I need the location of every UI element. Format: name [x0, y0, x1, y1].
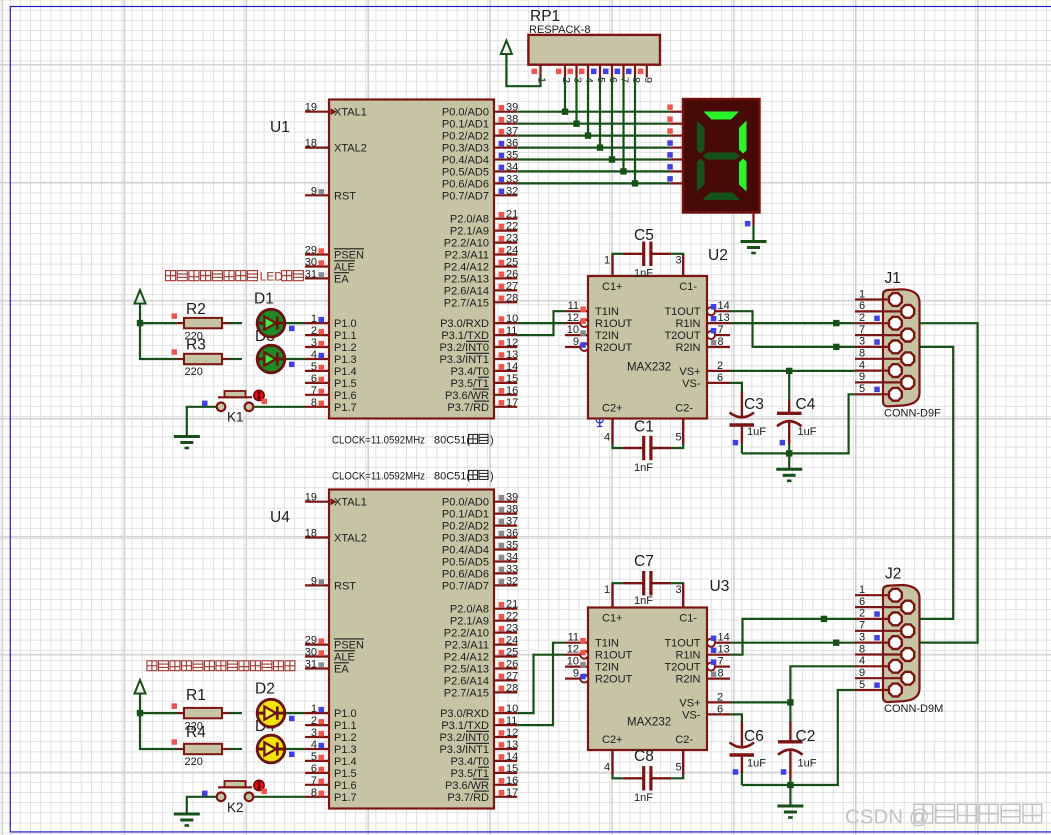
junction U3 VS+ at C2: [787, 699, 793, 705]
svg-text:17: 17: [506, 397, 518, 409]
svg-text:P3.7/RD: P3.7/RD: [447, 402, 489, 414]
svg-text:3: 3: [859, 631, 865, 643]
capacitor C5 plates: [644, 242, 651, 266]
svg-text:38: 38: [506, 504, 518, 516]
svg-text:7: 7: [718, 324, 724, 336]
svg-text:13: 13: [506, 739, 518, 751]
U2 pin numbers: [567, 300, 730, 384]
svg-text:R2: R2: [186, 301, 206, 318]
svg-text:3: 3: [311, 337, 317, 349]
svg-text:2: 2: [717, 691, 723, 703]
junction on R1IN wire: [833, 320, 839, 326]
svg-text:P1.0: P1.0: [334, 318, 357, 330]
svg-text:P0.4/AD4: P0.4/AD4: [442, 545, 489, 557]
svg-text:31: 31: [305, 659, 317, 671]
svg-text:5: 5: [311, 751, 317, 763]
svg-text:RST: RST: [334, 190, 356, 202]
svg-text:P3.4/T0: P3.4/T0: [450, 756, 489, 768]
svg-text:P1.1: P1.1: [334, 720, 357, 732]
microcontroller U4 80C51 body: [329, 490, 494, 809]
svg-text:12: 12: [506, 337, 518, 349]
svg-text:6: 6: [717, 703, 723, 715]
svg-text:1: 1: [311, 703, 317, 715]
7-segment segment G (off): [703, 153, 741, 160]
J1 pin state squares: [874, 316, 880, 393]
svg-text:D2: D2: [255, 681, 275, 698]
wire U1 P3.1/TXD to U2 T1IN: [517, 311, 565, 335]
svg-text:4: 4: [311, 739, 317, 751]
svg-text:CLOCK=11.0592MHz: CLOCK=11.0592MHz: [332, 434, 425, 446]
svg-text:P3.4/T0: P3.4/T0: [450, 366, 489, 378]
U3 right pin stubs and bubbles: [707, 639, 730, 715]
wire LED D2 to U4 P1.0: [286, 712, 305, 714]
svg-text:7: 7: [718, 656, 724, 668]
svg-text:13: 13: [718, 312, 730, 324]
svg-text:R1IN: R1IN: [675, 650, 700, 662]
resistor pack RP1 RESPACK-8 body: [528, 35, 660, 65]
svg-text:3: 3: [859, 336, 865, 348]
svg-text:CONN-D9F: CONN-D9F: [884, 408, 941, 420]
svg-text:80C51(: 80C51(: [434, 470, 470, 482]
svg-text:P0.5/AD5: P0.5/AD5: [442, 557, 489, 569]
svg-text:24: 24: [506, 635, 518, 647]
wire U3 T1OUT to J2 pin 3: [730, 642, 855, 644]
svg-text:R1OUT: R1OUT: [595, 650, 633, 662]
U1 left pin stubs: [305, 112, 329, 407]
svg-text:P3.0/RXD: P3.0/RXD: [440, 318, 489, 330]
svg-text:P1.7: P1.7: [334, 402, 357, 414]
svg-text:ALE: ALE: [334, 262, 355, 274]
svg-text:P1.3: P1.3: [334, 744, 357, 756]
wire U3 R1IN to J2 pin 2: [730, 619, 855, 655]
svg-text:1uF: 1uF: [798, 758, 817, 770]
U4 right pin stubs: [494, 502, 517, 797]
svg-text:25: 25: [506, 257, 518, 269]
svg-text:5: 5: [676, 432, 682, 444]
RP1 pin numbers: [536, 77, 654, 83]
svg-text:6: 6: [859, 300, 865, 312]
svg-text:29: 29: [305, 245, 317, 257]
C5 pin leads to chip: [613, 254, 684, 276]
svg-text:9: 9: [573, 668, 579, 680]
power symbol VCC (top-left LED branch): [135, 290, 146, 304]
svg-text:P3.1/TXD: P3.1/TXD: [441, 720, 489, 732]
svg-text:P0.6/AD6: P0.6/AD6: [442, 178, 489, 190]
capacitor C7 pin numbers: [604, 584, 682, 596]
annotation text (bottom): control description: [147, 661, 295, 671]
wire K1 to U1 P1.7: [254, 406, 306, 408]
svg-text:4: 4: [604, 762, 610, 774]
svg-text:9: 9: [642, 77, 654, 83]
svg-text:30: 30: [305, 647, 317, 659]
svg-text:22: 22: [506, 611, 518, 623]
wire VCC to RP1 pin 1: [506, 54, 540, 87]
7-segment segment D (off): [703, 193, 741, 201]
7-segment segment F (off): [697, 121, 705, 154]
svg-text:C2-: C2-: [675, 734, 693, 746]
svg-text:8: 8: [718, 668, 724, 680]
svg-text:5: 5: [311, 361, 317, 373]
svg-text:2: 2: [311, 715, 317, 727]
svg-text:T2OUT: T2OUT: [664, 662, 700, 674]
svg-text:CSDN @: CSDN @: [845, 806, 930, 829]
wire R2 to LED D1: [230, 322, 242, 324]
svg-text:P2.0/A8: P2.0/A8: [450, 604, 489, 616]
svg-text:P2.6/A14: P2.6/A14: [444, 285, 489, 297]
svg-text:27: 27: [506, 670, 518, 682]
7-segment segment A (on): [704, 112, 740, 120]
svg-text:7: 7: [859, 324, 865, 336]
svg-text:37: 37: [506, 516, 518, 528]
LED D1 body: [256, 309, 285, 337]
wire LED D1 to U1 P1.0: [286, 322, 305, 324]
LED D4 body: [256, 735, 285, 763]
svg-text:18: 18: [305, 138, 317, 150]
junction ground bus at C4: [786, 450, 792, 456]
svg-text:P0.7/AD7: P0.7/AD7: [442, 190, 489, 202]
svg-text:10: 10: [506, 703, 518, 715]
junctions RP1 drops on P0 bus: [562, 109, 638, 187]
wire K1 to ground: [187, 407, 217, 437]
svg-text:14: 14: [506, 361, 518, 373]
svg-text:U1: U1: [270, 119, 290, 136]
svg-text:P1.1: P1.1: [334, 330, 357, 342]
resistor R4 body: [184, 744, 222, 754]
7-segment common pin stub: [752, 213, 754, 226]
svg-text:8: 8: [859, 348, 865, 360]
svg-text:P2.7/A15: P2.7/A15: [444, 687, 489, 699]
svg-text:T1IN: T1IN: [595, 306, 619, 318]
wire U4 P3.0/RXD to U3 R1OUT: [517, 655, 565, 713]
svg-text:2: 2: [717, 360, 723, 372]
7-segment segment C (on): [739, 159, 747, 192]
wire C8 to pins: [613, 774, 684, 778]
ground bus wire (top serial section): [742, 394, 855, 453]
wire U2 T1OUT to J1 pin 3: [730, 311, 855, 347]
wire C7 to pins: [611, 582, 684, 584]
U4 right pin labels: [439, 497, 489, 804]
wire C6 to ground bus: [741, 773, 743, 785]
svg-text:R2IN: R2IN: [675, 342, 700, 354]
svg-text:8: 8: [859, 643, 865, 655]
svg-text:P3.3/INT1: P3.3/INT1: [439, 354, 489, 366]
wire U3 VS+ junction: [730, 701, 790, 703]
7-segment segment B (on): [739, 121, 747, 154]
svg-text:P0.1/AD1: P0.1/AD1: [442, 509, 489, 521]
RP1 pin state squares: [532, 69, 644, 75]
7-segment segment E (off): [697, 159, 705, 192]
svg-text:C1: C1: [634, 419, 654, 436]
svg-text:R2OUT: R2OUT: [595, 674, 633, 686]
resistor R3 body: [184, 354, 222, 364]
svg-text:RST: RST: [334, 580, 356, 592]
U4 left pin numbers: [305, 492, 324, 799]
svg-text:P2.7/A15: P2.7/A15: [444, 297, 489, 309]
svg-text:C6: C6: [744, 728, 764, 745]
wire C2 to ground bus: [789, 779, 791, 786]
C7 pin leads to chip: [613, 583, 684, 607]
svg-text:24: 24: [506, 245, 518, 257]
J1 pin sockets: [889, 293, 914, 401]
svg-text:P0.2/AD2: P0.2/AD2: [442, 521, 489, 533]
svg-text:2: 2: [311, 325, 317, 337]
push button K2 body: [217, 781, 254, 801]
connector J1 body: [883, 289, 920, 406]
capacitor C8 pin numbers: [604, 762, 682, 774]
U4 left pin labels: [334, 497, 367, 804]
U4 left pin stubs: [305, 502, 329, 797]
capacitor C4 body: [777, 400, 802, 445]
J1 pin numbers: [859, 288, 865, 395]
resistor R4 leads: [177, 748, 230, 750]
svg-text:P3.6/WR: P3.6/WR: [445, 780, 489, 792]
svg-text:VS-: VS-: [682, 378, 701, 390]
junction VCC bus at R1: [137, 710, 143, 716]
svg-text:C1-: C1-: [679, 281, 697, 293]
svg-text:P2.1/A9: P2.1/A9: [450, 616, 489, 628]
svg-text:14: 14: [718, 632, 730, 644]
svg-text:33: 33: [506, 563, 518, 575]
svg-text:P1.6: P1.6: [334, 780, 357, 792]
svg-text:19: 19: [305, 102, 317, 114]
svg-text:39: 39: [506, 102, 518, 114]
svg-text:P0.3/AD3: P0.3/AD3: [442, 533, 489, 545]
svg-text:1: 1: [859, 584, 865, 596]
svg-text:ALE: ALE: [334, 652, 355, 664]
svg-text:21: 21: [506, 599, 518, 611]
svg-text:18: 18: [305, 528, 317, 540]
svg-text:6: 6: [311, 373, 317, 385]
svg-text:P1.7: P1.7: [334, 792, 357, 804]
resistor R1 leads: [177, 712, 230, 714]
svg-text:80C51(: 80C51(: [434, 434, 470, 446]
svg-text:XTAL2: XTAL2: [334, 533, 367, 545]
ground symbol (K1): [174, 437, 200, 449]
svg-text:16: 16: [506, 385, 518, 397]
capacitor C5 pin numbers: [604, 255, 682, 267]
svg-text:CONN-D9M: CONN-D9M: [884, 703, 943, 715]
svg-text:7: 7: [311, 385, 317, 397]
svg-text:34: 34: [506, 161, 518, 173]
svg-text:T1IN: T1IN: [595, 638, 619, 650]
svg-text:8: 8: [718, 336, 724, 348]
svg-text:4: 4: [311, 349, 317, 361]
svg-text:RP1: RP1: [530, 8, 560, 25]
svg-text:P1.3: P1.3: [334, 354, 357, 366]
svg-text:21: 21: [506, 209, 518, 221]
svg-text:17: 17: [506, 787, 518, 799]
svg-text:P1.5: P1.5: [334, 378, 357, 390]
U1 clock/value label: [332, 434, 494, 446]
power symbol VCC (top, RP1): [501, 41, 512, 55]
capacitor C6 pin square: [733, 769, 739, 775]
svg-text:P0.0/AD0: P0.0/AD0: [442, 107, 489, 119]
junction on J2 pin 2 wire: [821, 616, 827, 622]
svg-text:T1OUT: T1OUT: [664, 306, 700, 318]
capacitor C1 plates: [644, 436, 651, 460]
svg-text:11: 11: [568, 632, 579, 644]
svg-text:1uF: 1uF: [747, 426, 766, 438]
svg-text:6: 6: [311, 763, 317, 775]
svg-text:XTAL1: XTAL1: [334, 497, 367, 509]
svg-text:35: 35: [506, 150, 518, 162]
svg-text:5: 5: [859, 679, 865, 691]
svg-text:LED: LED: [260, 270, 284, 284]
svg-text:P2.4/A12: P2.4/A12: [444, 652, 489, 664]
wire K2 to U4 P1.7: [254, 796, 306, 798]
wire J1 pin 3 to J2 pin 2 (cross link): [920, 347, 954, 619]
svg-text:C1-: C1-: [679, 613, 697, 625]
push button K1 pin squares: [202, 399, 267, 407]
svg-text:13: 13: [506, 349, 518, 361]
wire VCC bus to R1/R4: [140, 693, 177, 749]
svg-text:27: 27: [506, 280, 518, 292]
svg-text:1uF: 1uF: [747, 758, 766, 770]
svg-text:33: 33: [506, 173, 518, 185]
svg-text:6: 6: [859, 596, 865, 608]
wire U2 VS- to C3: [730, 383, 742, 392]
svg-text:7: 7: [311, 775, 317, 787]
svg-text:): ): [490, 470, 494, 482]
svg-text:P2.3/A11: P2.3/A11: [445, 640, 489, 652]
svg-text:C7: C7: [634, 553, 654, 570]
svg-text:1: 1: [604, 255, 610, 267]
svg-text:1nF: 1nF: [634, 268, 653, 280]
svg-text:35: 35: [506, 540, 518, 552]
wire C3 to ground bus: [741, 444, 743, 454]
7-segment common pin square: [745, 221, 751, 227]
push button K2 actuator: [254, 780, 264, 790]
RS232 driver U3 MAX232 body: [588, 608, 707, 751]
push button K2 pin squares: [202, 789, 267, 797]
wire LED D3 to U1 P1.3: [286, 358, 305, 360]
svg-text:7: 7: [859, 620, 865, 632]
svg-text:25: 25: [506, 647, 518, 659]
capacitor C7 plates: [644, 571, 651, 595]
svg-text:P2.1/A9: P2.1/A9: [450, 226, 489, 238]
svg-text:P2.5/A13: P2.5/A13: [444, 664, 489, 676]
resistor R1 body: [184, 708, 222, 718]
svg-text:28: 28: [506, 682, 518, 694]
svg-text:32: 32: [506, 575, 518, 587]
wire J1 pin 2 to J2 pin 3 (cross link): [920, 323, 978, 642]
RS232 driver U2 MAX232 body: [588, 276, 707, 419]
svg-text:): ): [490, 434, 494, 446]
svg-text:P1.0: P1.0: [334, 708, 357, 720]
svg-text:PSEN: PSEN: [334, 640, 364, 652]
ground symbol (7-segment common): [741, 242, 767, 254]
svg-text:36: 36: [506, 138, 518, 150]
svg-text:P1.2: P1.2: [334, 342, 357, 354]
capacitor C2 pin square: [781, 769, 787, 775]
svg-text:VS+: VS+: [679, 697, 700, 709]
U4 right pin numbers: [499, 492, 519, 799]
svg-text:P3.0/RXD: P3.0/RXD: [440, 708, 489, 720]
svg-text:U2: U2: [708, 247, 728, 264]
svg-text:EA: EA: [334, 664, 349, 676]
junction on T1OUT wire: [833, 344, 839, 350]
svg-text:P0.3/AD3: P0.3/AD3: [442, 143, 489, 155]
svg-text:R1OUT: R1OUT: [595, 318, 633, 330]
svg-text:P3.5/T1: P3.5/T1: [450, 378, 489, 390]
U3 pin labels: [595, 613, 701, 746]
7-segment display body: [683, 99, 760, 213]
junction ground bus at C2: [787, 782, 793, 788]
watermark text: [845, 804, 1042, 828]
svg-text:R3: R3: [186, 337, 206, 354]
ground symbol (bottom serial section): [777, 806, 803, 818]
svg-text:VS+: VS+: [679, 366, 700, 378]
capacitor C1 pin numbers: [604, 432, 682, 444]
svg-text:P3.5/T1: P3.5/T1: [450, 768, 489, 780]
svg-text:C2+: C2+: [602, 734, 623, 746]
svg-text:EA: EA: [334, 273, 349, 285]
svg-text:3: 3: [676, 584, 682, 596]
capacitor C3 pin square: [733, 440, 739, 446]
svg-text:14: 14: [718, 300, 730, 312]
microcontroller U1 80C51 body: [329, 100, 494, 419]
svg-text:10: 10: [506, 313, 518, 325]
svg-text:38: 38: [506, 114, 518, 126]
push button K1 actuator: [254, 390, 264, 400]
svg-text:29: 29: [305, 635, 317, 647]
U2 pin labels: [595, 281, 701, 414]
svg-text:9: 9: [311, 185, 317, 197]
svg-text:T2IN: T2IN: [595, 330, 619, 342]
svg-text:1nF: 1nF: [634, 462, 653, 474]
U1 left pin numbers: [305, 102, 324, 409]
wire VS+ up to J2 pin 4: [790, 666, 855, 702]
svg-text:T2IN: T2IN: [595, 662, 619, 674]
svg-text:1uF: 1uF: [798, 426, 817, 438]
svg-text:K2: K2: [227, 800, 244, 815]
wire VS+ junction down to C2: [789, 702, 791, 722]
svg-text:K1: K1: [227, 410, 244, 425]
svg-text:1: 1: [311, 313, 317, 325]
annotation text (top): control description: [166, 270, 304, 284]
wires RP1 pins 2-8 drop to bus: [565, 77, 635, 183]
svg-text:R1IN: R1IN: [675, 318, 700, 330]
capacitor C8 plates: [644, 766, 651, 790]
svg-text:P1.2: P1.2: [334, 732, 357, 744]
svg-text:C2-: C2-: [675, 402, 693, 414]
connector J2 body: [883, 585, 920, 702]
LED D3 body: [256, 345, 285, 373]
svg-text:XTAL2: XTAL2: [334, 143, 367, 155]
svg-text:14: 14: [506, 751, 518, 763]
svg-text:RESPACK-8: RESPACK-8: [529, 24, 591, 36]
svg-text:P0.1/AD1: P0.1/AD1: [442, 119, 489, 131]
svg-text:12: 12: [567, 312, 579, 324]
svg-text:D1: D1: [254, 291, 274, 308]
push button K1 body: [217, 391, 254, 411]
svg-text:P2.2/A10: P2.2/A10: [444, 628, 489, 640]
svg-text:T1OUT: T1OUT: [664, 638, 700, 650]
ground bus wire (bottom serial section): [742, 690, 855, 785]
junction VS+ at C4: [786, 368, 792, 374]
wires U1 P0 bus to 7-segment display: [517, 112, 670, 184]
U3 pin numbers: [567, 632, 730, 716]
svg-text:19: 19: [305, 492, 317, 504]
capacitor C5 leads: [624, 253, 672, 255]
svg-text:30: 30: [305, 257, 317, 269]
capacitor C7 leads: [624, 582, 672, 584]
svg-text:9: 9: [311, 575, 317, 587]
J2 pin sockets: [889, 589, 914, 697]
7-segment pin state squares: [667, 104, 673, 181]
svg-text:220: 220: [185, 756, 203, 768]
svg-text:P3.1/TXD: P3.1/TXD: [441, 330, 489, 342]
